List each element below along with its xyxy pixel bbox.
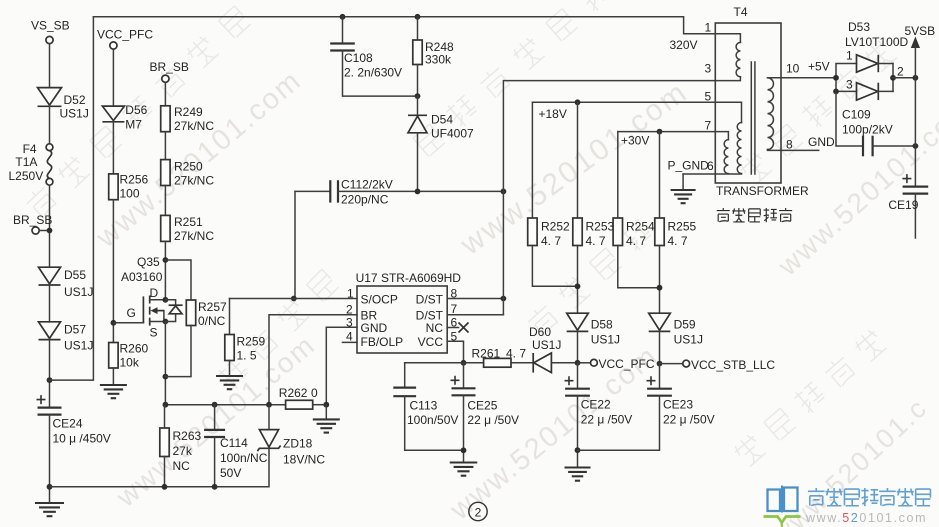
svg-text:BR_SB: BR_SB — [150, 60, 189, 74]
svg-text:100: 100 — [120, 187, 140, 201]
svg-text:U17 STR-A6069HD: U17 STR-A6069HD — [356, 271, 462, 285]
svg-text:4. 7: 4. 7 — [626, 234, 646, 248]
svg-text:2: 2 — [475, 506, 482, 520]
svg-text:+18V: +18V — [539, 107, 567, 121]
wire gate to node — [113, 322, 143, 324]
resistor R249 27k/NC — [161, 105, 215, 133]
svg-text:22 μ /50V: 22 μ /50V — [581, 413, 633, 427]
capacitor CE19 — [888, 174, 928, 238]
svg-text:VCC_PFC: VCC_PFC — [97, 28, 153, 42]
node VCC_PFC output — [575, 357, 655, 371]
pin 1 (D53) — [846, 49, 853, 63]
junction dots bottom line — [162, 484, 218, 490]
svg-text:C114: C114 — [220, 436, 248, 450]
wire pin3 GND — [326, 327, 357, 404]
wire F4 to BR_SB node — [49, 185, 51, 267]
svg-text:D60: D60 — [529, 325, 551, 339]
svg-text:R249: R249 — [174, 105, 203, 119]
pin 3 (D53) — [846, 78, 853, 92]
ground (under CE25) — [450, 463, 478, 476]
diode D54 UF4007 — [408, 96, 474, 191]
svg-text:R263: R263 — [173, 429, 202, 443]
wire VCC_PFC to D56 — [112, 49, 114, 106]
svg-text:VCC: VCC — [418, 335, 444, 349]
node BR_SB (chain terminal) — [150, 60, 189, 82]
ground (near U17) — [313, 419, 340, 432]
svg-text:T1A: T1A — [15, 155, 37, 169]
ground (P_GND) — [671, 174, 696, 203]
wire pin2 BR — [269, 315, 357, 405]
net +30V — [618, 129, 716, 148]
svg-text:27k/NC: 27k/NC — [174, 174, 214, 188]
svg-text:D59: D59 — [674, 318, 696, 332]
net +18V — [532, 99, 715, 121]
svg-text:www.520101.com: www.520101.com — [805, 511, 927, 525]
winding pins 5-6 — [715, 102, 741, 173]
label 320V — [670, 38, 698, 52]
svg-text:1. 5: 1. 5 — [237, 349, 257, 363]
svg-text:VCC_PFC: VCC_PFC — [599, 357, 655, 371]
wire pin6 P_GND — [683, 173, 741, 175]
resistor R256 100 — [109, 173, 149, 201]
wire R256 to gate node — [111, 200, 117, 343]
svg-text:R252: R252 — [541, 220, 570, 234]
pin 4 — [346, 330, 353, 344]
resistor R250 27k/NC — [161, 160, 215, 188]
primary winding pins 1-3 — [715, 34, 740, 81]
diode D52 — [38, 88, 89, 121]
svg-text:27k: 27k — [173, 444, 193, 458]
wire pin8 GND stub — [768, 135, 836, 150]
svg-text:5: 5 — [705, 90, 712, 104]
svg-text:27k/NC: 27k/NC — [174, 229, 214, 243]
svg-text:4: 4 — [346, 330, 353, 344]
diode D53 LV10T100D — [833, 20, 908, 100]
svg-text:CE24: CE24 — [53, 417, 83, 431]
wire D52 to F4 — [49, 107, 51, 144]
svg-text:100p/2kV: 100p/2kV — [842, 123, 893, 137]
capacitor CE22 22u/50V — [565, 363, 633, 467]
svg-text:F4: F4 — [23, 142, 37, 156]
capacitor CE25 22u/50V — [451, 363, 520, 462]
wire CE24 to ground — [47, 415, 53, 503]
page number 2 — [469, 502, 487, 520]
diode D55 — [39, 267, 94, 299]
svg-text:R251: R251 — [174, 215, 203, 229]
capacitor CE23 22u/50V — [578, 364, 715, 451]
svg-text:C109: C109 — [842, 108, 871, 122]
node VCC_STB_LLC output — [657, 358, 776, 372]
resistor R262 0 — [279, 386, 329, 409]
capacitor C114 100n/NC 50V — [204, 405, 268, 487]
svg-text:VCC_STB_LLC: VCC_STB_LLC — [691, 358, 775, 372]
diode D56 M7 — [102, 103, 147, 132]
svg-text:+5V: +5V — [808, 60, 830, 74]
wire pin10 +5V — [768, 60, 837, 78]
ground (under R259) — [216, 376, 243, 389]
svg-text:R256: R256 — [120, 173, 149, 187]
wire 320V rail to transformer pin1 — [93, 14, 715, 34]
svg-text:VS_SB: VS_SB — [31, 19, 70, 33]
resistor R254 4.7 — [613, 132, 659, 288]
svg-text:4. 7: 4. 7 — [586, 234, 606, 248]
svg-text:18V/NC: 18V/NC — [283, 453, 325, 467]
core — [751, 62, 755, 174]
svg-text:10 μ /450V: 10 μ /450V — [53, 432, 111, 446]
svg-text:R253: R253 — [586, 220, 615, 234]
svg-text:8: 8 — [786, 138, 793, 152]
net 5VSB — [905, 24, 936, 187]
pin 2 — [346, 303, 353, 317]
wire BR_SB to R249 — [164, 82, 166, 106]
winding pins 7-6 — [715, 132, 728, 174]
wire GND node to ground — [325, 405, 327, 419]
svg-text:D54: D54 — [431, 113, 453, 127]
wire source bus — [163, 402, 286, 408]
svg-text:2: 2 — [897, 65, 904, 79]
svg-text:R262: R262 — [279, 386, 308, 400]
resistor R263 27k NC — [160, 405, 202, 487]
wire Q35 source down — [163, 322, 169, 405]
resistor R259 1.5 — [225, 299, 266, 376]
svg-text:27k/NC: 27k/NC — [174, 119, 214, 133]
pin 6 — [451, 316, 458, 330]
wire R249 to R250 — [164, 132, 166, 160]
pin 8 — [451, 287, 458, 301]
resistor R253 4.7 — [573, 102, 615, 313]
logo site name — [808, 488, 931, 506]
capacitor C108 2.2n/630V — [330, 17, 417, 96]
svg-text:R255: R255 — [668, 220, 697, 234]
wire 320V top rail left branch — [50, 17, 94, 380]
pin 3 (T4) — [705, 62, 712, 76]
svg-text:1: 1 — [705, 21, 712, 35]
pin 7 (T4) — [705, 119, 712, 133]
capacitor CE24 10u/450V — [37, 395, 111, 445]
resistor R251 27k/NC — [161, 215, 215, 243]
svg-text:CE25: CE25 — [467, 399, 497, 413]
wire R250 to R251 — [164, 186, 166, 216]
svg-text:2. 2n/630V: 2. 2n/630V — [344, 66, 402, 80]
resistor R257 0/NC — [165, 260, 227, 377]
label core note — [717, 208, 792, 222]
svg-text:+30V: +30V — [621, 134, 649, 148]
node BR_SB (left terminal) — [13, 213, 52, 234]
svg-text:100n/50V: 100n/50V — [407, 413, 458, 427]
wire pin7 D/ST — [447, 314, 503, 316]
fuse F4 T1A L250V — [9, 142, 53, 185]
svg-text:100n/NC: 100n/NC — [220, 451, 268, 465]
wire R260 to ground — [112, 368, 114, 385]
pin 6 (T4) — [707, 159, 714, 173]
svg-text:LV10T100D: LV10T100D — [845, 35, 908, 49]
wire C112 to pin1 net — [291, 191, 297, 301]
transistor Q35 AO3160 — [121, 255, 168, 340]
svg-text:TRANSFORMER: TRANSFORMER — [716, 184, 809, 198]
capacitor C109 100p/2kV — [836, 91, 918, 156]
wire pin1 S/OCP — [230, 298, 358, 300]
label P_GND — [668, 159, 710, 173]
svg-text:NC: NC — [173, 459, 191, 473]
capacitor C112 220p/NC — [295, 178, 506, 207]
op-amp U17 STR-A6069HD — [356, 271, 462, 353]
resistor R252 4.7 — [528, 102, 578, 286]
diode D59 US1J — [649, 313, 703, 363]
svg-text:0: 0 — [311, 386, 318, 400]
svg-text:GND: GND — [808, 135, 835, 149]
svg-text:R250: R250 — [174, 160, 203, 174]
ground (bottom left) — [35, 503, 64, 516]
wire pin8 D/ST up to transformer pin3 — [447, 81, 715, 315]
wire R251 to Q35 drain node — [163, 241, 169, 299]
pin 3 — [346, 316, 353, 330]
svg-text:US1J: US1J — [64, 285, 93, 299]
svg-text:D/ST: D/ST — [416, 293, 444, 307]
svg-text:US1J: US1J — [532, 338, 561, 352]
svg-text:CE23: CE23 — [663, 398, 693, 412]
svg-text:CE19: CE19 — [888, 198, 918, 212]
svg-text:C108: C108 — [344, 51, 373, 65]
svg-text:330k: 330k — [425, 53, 452, 67]
svg-text:R260: R260 — [120, 342, 149, 356]
svg-text:22 μ /50V: 22 μ /50V — [467, 413, 519, 427]
wire D56 to R256 — [112, 122, 114, 174]
svg-text:0/NC: 0/NC — [198, 314, 226, 328]
svg-text:D58: D58 — [591, 318, 613, 332]
svg-text:D56: D56 — [125, 103, 147, 117]
diode D60 US1J — [529, 325, 578, 373]
wire pin6 NC with X — [447, 323, 468, 333]
svg-text:L250V: L250V — [9, 169, 44, 183]
svg-text:M7: M7 — [125, 118, 142, 132]
pin 5 (T4) — [705, 90, 712, 104]
svg-text:7: 7 — [705, 119, 712, 133]
svg-text:220p/NC: 220p/NC — [341, 193, 389, 207]
svg-text:4. 7: 4. 7 — [506, 347, 526, 361]
svg-text:US1J: US1J — [60, 107, 89, 121]
zener ZD18 18V/NC — [50, 405, 326, 487]
svg-text:A03160: A03160 — [121, 270, 163, 284]
svg-text:T4: T4 — [734, 5, 748, 19]
wire pin4 FB/OLP stub — [343, 341, 358, 343]
svg-text:S/OCP: S/OCP — [361, 293, 398, 307]
svg-text:US1J: US1J — [674, 333, 703, 347]
node VS_SB — [31, 19, 70, 44]
svg-text:BR_SB: BR_SB — [13, 213, 52, 227]
svg-text:50V: 50V — [220, 466, 241, 480]
svg-text:CE22: CE22 — [581, 398, 611, 412]
pin 1 (T4) — [705, 21, 712, 35]
svg-text:3: 3 — [846, 78, 853, 92]
svg-text:3: 3 — [705, 62, 712, 76]
svg-text:R259: R259 — [237, 335, 266, 349]
svg-text:P_GND: P_GND — [668, 159, 710, 173]
wire pin5 VCC to node — [447, 341, 466, 365]
resistor R261 4.7 — [464, 347, 534, 368]
svg-text:320V: 320V — [670, 38, 698, 52]
svg-text:D: D — [150, 286, 159, 300]
svg-text:5VSB: 5VSB — [905, 24, 936, 38]
svg-text:22 μ /50V: 22 μ /50V — [663, 413, 715, 427]
svg-text:4. 7: 4. 7 — [541, 234, 561, 248]
ground (under CE22) — [565, 468, 591, 481]
pin 1 — [347, 287, 354, 301]
svg-text:R261: R261 — [472, 347, 501, 361]
svg-text:D53: D53 — [848, 20, 870, 34]
wire D55 to D57 — [49, 285, 51, 322]
svg-text:D52: D52 — [64, 93, 86, 107]
svg-text:C113: C113 — [410, 399, 438, 413]
svg-text:C112/2kV: C112/2kV — [341, 178, 393, 192]
node VCC_PFC (top terminal) — [97, 28, 153, 50]
transformer T4 — [715, 5, 809, 198]
logo url — [805, 511, 927, 525]
svg-text:FB/OLP: FB/OLP — [361, 335, 404, 349]
svg-text:D55: D55 — [64, 268, 86, 282]
svg-text:D57: D57 — [64, 323, 86, 337]
secondary winding 10-8 — [768, 78, 774, 150]
svg-text:7: 7 — [451, 302, 458, 316]
svg-text:4. 7: 4. 7 — [668, 234, 688, 248]
svg-text:S: S — [150, 326, 158, 340]
wire D57 to CE24 node — [47, 340, 53, 408]
svg-text:US1J: US1J — [591, 333, 620, 347]
logo book icon — [764, 486, 801, 527]
pin 7 — [451, 302, 458, 316]
svg-text:1: 1 — [846, 49, 853, 63]
svg-text:NC: NC — [426, 321, 444, 335]
pin 5 — [451, 330, 458, 344]
pin 8 (T4) — [786, 138, 793, 152]
svg-text:ZD18: ZD18 — [283, 437, 313, 451]
svg-text:G: G — [127, 306, 136, 320]
diode D58 US1J — [567, 313, 620, 363]
wire VS_SB to D52 — [49, 44, 51, 88]
svg-text:Q35: Q35 — [137, 255, 160, 269]
svg-text:US1J: US1J — [64, 339, 93, 353]
svg-text:GND: GND — [361, 321, 388, 335]
diode D57 — [39, 322, 94, 353]
resistor R248 330k — [413, 17, 454, 99]
svg-text:R254: R254 — [626, 220, 655, 234]
capacitor C113 100n/50V — [393, 363, 463, 451]
resistor R255 4.7 — [655, 132, 697, 314]
pin 10 (T4) — [786, 62, 800, 76]
pin 2 (D53) — [897, 65, 904, 79]
svg-text:R257: R257 — [198, 300, 227, 314]
svg-text:10k: 10k — [120, 356, 140, 370]
svg-text:UF4007: UF4007 — [431, 127, 474, 141]
resistor R260 10k — [109, 342, 149, 370]
wire D53 output to 5VSB rail — [893, 75, 918, 81]
svg-text:10: 10 — [786, 62, 800, 76]
ground (under R260) — [100, 385, 127, 398]
body diode of Q35 — [165, 300, 182, 322]
